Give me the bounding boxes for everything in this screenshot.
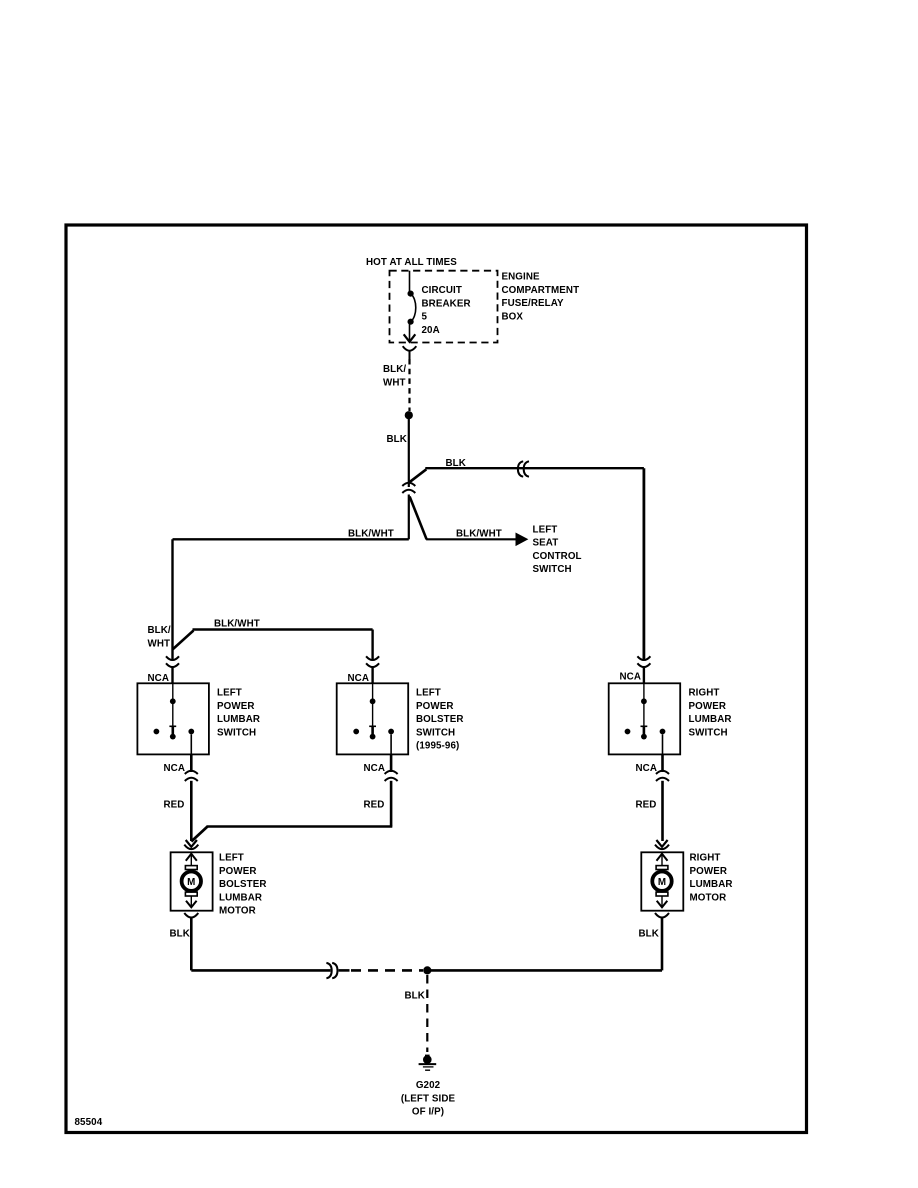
svg-text:POWER: POWER <box>689 701 727 712</box>
arrow to LEFT SEAT CONTROL SWITCH <box>516 533 527 545</box>
wire RED left switch to motor <box>190 781 193 841</box>
svg-text:G202: G202 <box>416 1080 441 1091</box>
svg-text:M: M <box>187 877 195 888</box>
in-line connector on ground bus <box>326 963 337 978</box>
connector NCA below right switch <box>661 754 664 772</box>
svg-text:SEAT: SEAT <box>533 538 559 549</box>
connector NCA above middle switch <box>366 656 379 660</box>
svg-text:BLK/WHT: BLK/WHT <box>456 529 502 540</box>
svg-text:85504: 85504 <box>75 1117 103 1128</box>
svg-text:(1995-96): (1995-96) <box>416 741 459 752</box>
svg-text:WHT: WHT <box>148 638 171 649</box>
svg-text:NCA: NCA <box>364 763 386 774</box>
svg-text:BLK: BLK <box>446 458 466 469</box>
svg-text:SWITCH: SWITCH <box>689 727 728 738</box>
wire left vertical BLK/WHT <box>171 539 173 659</box>
svg-text:BLK: BLK <box>387 434 407 445</box>
circuit breaker 5 20A <box>404 271 416 342</box>
wire BLK/WHT to left seat control switch arrow <box>426 538 517 540</box>
wire BLK right vertical down to right switch <box>643 468 646 659</box>
svg-text:LEFT: LEFT <box>219 853 244 864</box>
switch S2 LEFT POWER BOLSTER SWITCH <box>337 683 409 754</box>
svg-text:BOX: BOX <box>502 312 524 323</box>
svg-text:BREAKER: BREAKER <box>422 298 471 309</box>
svg-text:ENGINE: ENGINE <box>502 272 541 283</box>
svg-text:POWER: POWER <box>217 701 255 712</box>
svg-text:LEFT: LEFT <box>533 524 558 535</box>
wire BLK main vertical <box>408 419 410 487</box>
connector below motor <box>655 913 669 918</box>
svg-text:LUMBAR: LUMBAR <box>217 714 260 725</box>
svg-text:MOTOR: MOTOR <box>219 906 256 917</box>
connector NCA below left switch <box>190 754 193 772</box>
svg-text:M: M <box>658 877 666 888</box>
wire BLK/WHT (dashed) from breaker to splice <box>408 359 410 411</box>
svg-text:BLK: BLK <box>639 929 659 940</box>
svg-text:SWITCH: SWITCH <box>217 727 256 738</box>
switch S1 LEFT POWER LUMBAR SWITCH <box>137 683 209 754</box>
wire RED middle switch joining left motor <box>191 781 392 842</box>
svg-text:HOT AT ALL TIMES: HOT AT ALL TIMES <box>366 257 457 268</box>
svg-text:BLK: BLK <box>170 929 190 940</box>
connector NCA below middle switch <box>390 754 393 772</box>
connector below fuse box <box>403 346 417 351</box>
svg-text:BLK/: BLK/ <box>148 625 171 636</box>
wire BLK dashed segment of ground bus <box>339 969 423 972</box>
svg-text:RIGHT: RIGHT <box>690 853 721 864</box>
connector NCA above right switch <box>637 656 650 660</box>
svg-text:LEFT: LEFT <box>416 688 441 699</box>
svg-text:CIRCUIT: CIRCUIT <box>422 285 462 296</box>
svg-text:RED: RED <box>636 800 657 811</box>
svg-text:COMPARTMENT: COMPARTMENT <box>502 285 580 296</box>
svg-text:LEFT: LEFT <box>217 688 242 699</box>
svg-text:5: 5 <box>422 312 428 323</box>
svg-text:POWER: POWER <box>690 866 728 877</box>
svg-text:NCA: NCA <box>636 763 658 774</box>
svg-text:RED: RED <box>164 800 185 811</box>
wire BLK/WHT branch to bolster switch <box>173 630 373 660</box>
svg-text:NCA: NCA <box>164 763 186 774</box>
svg-text:POWER: POWER <box>416 701 454 712</box>
engine compartment fuse/relay box (dashed) <box>390 271 498 343</box>
ground G202 <box>419 1055 437 1071</box>
svg-text:SWITCH: SWITCH <box>533 564 572 575</box>
wire BLK dashed to ground <box>426 975 428 1052</box>
svg-text:LUMBAR: LUMBAR <box>219 892 262 903</box>
svg-text:LUMBAR: LUMBAR <box>690 879 733 890</box>
wire RED right switch to motor <box>661 781 664 841</box>
motor M1 LEFT POWER BOLSTER LUMBAR MOTOR <box>171 852 213 910</box>
svg-text:WHT: WHT <box>383 377 406 388</box>
svg-text:LUMBAR: LUMBAR <box>689 714 732 725</box>
switch S3 RIGHT POWER LUMBAR SWITCH <box>609 683 681 754</box>
in-line connector on BLK wire <box>518 461 529 476</box>
svg-text:SWITCH: SWITCH <box>416 727 455 738</box>
connector NCA above left switch <box>166 656 179 660</box>
svg-text:NCA: NCA <box>148 673 170 684</box>
wire BLK left motor to ground bus <box>191 918 330 971</box>
svg-text:20A: 20A <box>422 325 440 336</box>
svg-text:BLK/: BLK/ <box>383 364 406 375</box>
wire diagonal to left seat control switch branch <box>410 497 427 540</box>
svg-text:CONTROL: CONTROL <box>533 551 582 562</box>
connector below motor <box>184 913 198 918</box>
in-line connector on main vertical <box>402 483 415 486</box>
connector above motor <box>656 840 667 847</box>
splice S BLK <box>423 966 431 974</box>
svg-text:MOTOR: MOTOR <box>690 892 727 903</box>
svg-text:BLK/WHT: BLK/WHT <box>214 619 260 630</box>
svg-text:NCA: NCA <box>620 672 642 683</box>
svg-text:RIGHT: RIGHT <box>689 688 720 699</box>
svg-text:BLK: BLK <box>405 991 425 1002</box>
motor M2 RIGHT POWER LUMBAR MOTOR <box>641 852 683 910</box>
svg-text:BLK/WHT: BLK/WHT <box>348 529 394 540</box>
wire BLK right motor to ground bus <box>431 918 662 971</box>
connector above motor <box>186 840 197 847</box>
svg-text:NCA: NCA <box>348 673 370 684</box>
svg-text:RED: RED <box>364 800 385 811</box>
wire BLK branch to right <box>409 468 644 483</box>
wire BLK/WHT horizontal to left side <box>173 538 409 540</box>
splice S <box>405 411 413 419</box>
svg-text:POWER: POWER <box>219 866 257 877</box>
svg-text:(LEFT SIDE: (LEFT SIDE <box>401 1093 456 1104</box>
svg-text:OF I/P): OF I/P) <box>412 1107 444 1118</box>
svg-text:BOLSTER: BOLSTER <box>416 714 464 725</box>
svg-text:BOLSTER: BOLSTER <box>219 879 267 890</box>
svg-text:FUSE/RELAY: FUSE/RELAY <box>502 298 565 309</box>
